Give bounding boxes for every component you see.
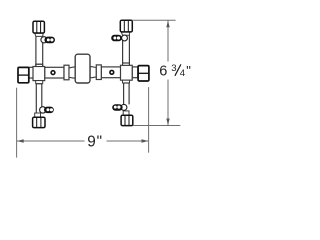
arrow down xyxy=(166,119,169,126)
left taper piece xyxy=(69,67,75,78)
lower-right tube xyxy=(124,83,130,111)
upper-left knurled cap xyxy=(33,21,44,33)
arrow left xyxy=(17,139,24,142)
right end nut xyxy=(138,66,149,81)
upper-right knurled cap xyxy=(120,20,132,32)
right hole xyxy=(110,70,114,74)
dimension: horizontal 9 line right segment xyxy=(107,140,149,142)
right junction boss above xyxy=(123,63,130,65)
left junction boss above xyxy=(36,64,43,66)
upper-right cap neck xyxy=(121,32,129,35)
left hole xyxy=(51,71,55,75)
upper-left cap neck xyxy=(35,33,43,36)
upper-left tube xyxy=(36,36,43,66)
svg-text:9": 9" xyxy=(87,133,103,150)
arrow right xyxy=(142,139,149,142)
left junction boss below xyxy=(36,81,43,84)
lower-right knurled cap xyxy=(121,115,133,125)
lower-right cam lever xyxy=(112,104,127,110)
right junction boss below xyxy=(123,80,130,83)
svg-text:": " xyxy=(186,63,191,78)
left collar xyxy=(64,65,69,80)
lower-left knurled cap xyxy=(33,117,45,127)
crossbar left thin segment xyxy=(29,67,138,78)
lower-right cap neck xyxy=(123,111,129,115)
svg-text:3: 3 xyxy=(171,63,176,74)
lower-left tube xyxy=(36,84,42,113)
dimension: vertical 6-3/4 line lower segment xyxy=(167,80,169,126)
upper-right tube xyxy=(123,35,130,65)
dimension: horizontal 9 line left segment xyxy=(17,140,85,142)
lower-left cap neck xyxy=(35,113,41,117)
right junction block xyxy=(121,65,133,80)
crossbar right-middle segment xyxy=(101,67,120,78)
svg-text:4: 4 xyxy=(180,68,186,79)
dimension: left extension line xyxy=(16,88,18,158)
dimension: bottom reference line xyxy=(133,125,181,127)
crossbar right thin segment xyxy=(132,67,138,78)
center block xyxy=(75,54,90,83)
right taper piece xyxy=(90,67,96,78)
crossbar left-middle segment xyxy=(45,67,64,78)
lower-left cam lever xyxy=(40,107,54,114)
dimension: top reference line xyxy=(132,19,176,21)
right collar xyxy=(96,65,101,80)
svg-text:6: 6 xyxy=(159,63,167,79)
left end nut xyxy=(18,67,29,82)
upper-left cam lever xyxy=(41,37,55,44)
arrow up xyxy=(166,21,169,28)
dimension: right extension line xyxy=(148,87,150,153)
dimension: vertical 6-3/4 line upper segment xyxy=(167,20,169,61)
left junction block xyxy=(33,67,45,81)
label 6 3/4 inch xyxy=(159,63,191,80)
upper-right cam lever xyxy=(111,35,127,42)
